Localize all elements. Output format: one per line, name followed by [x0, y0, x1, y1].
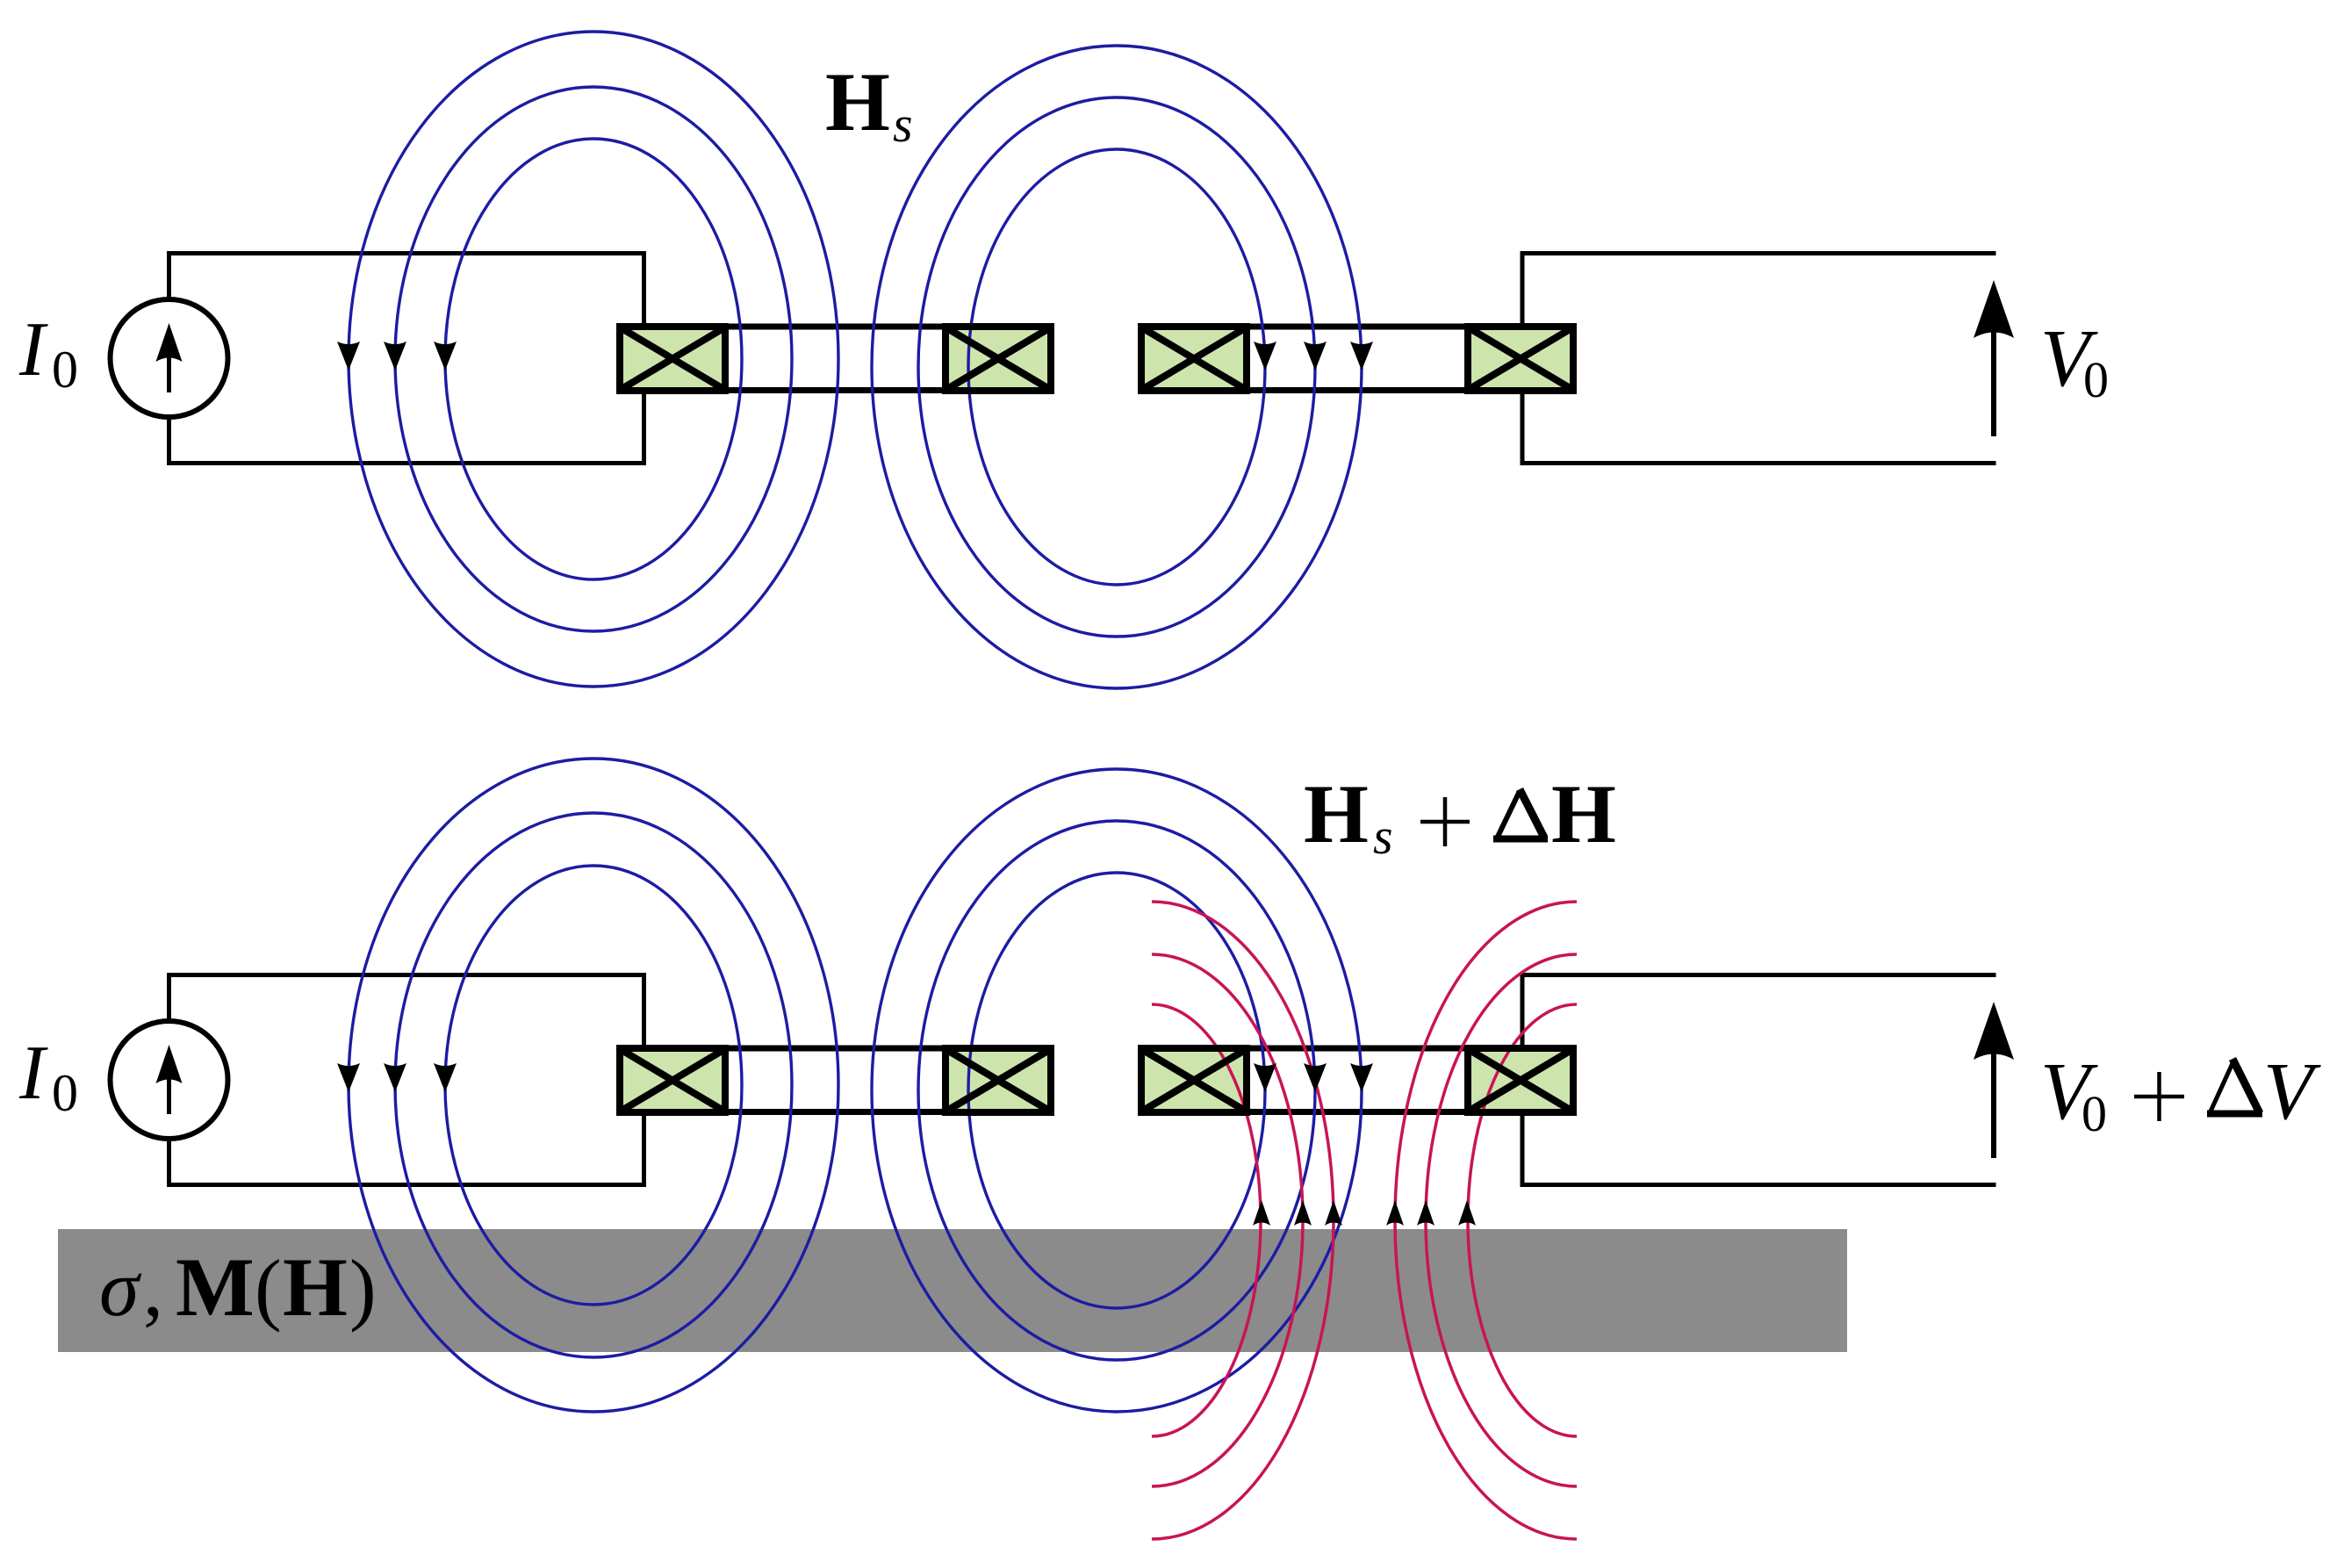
- svg-text:0: 0: [2082, 1085, 2107, 1142]
- svg-text:s: s: [893, 96, 913, 153]
- svg-text:H: H: [1551, 767, 1616, 860]
- svg-text:0: 0: [52, 341, 78, 399]
- svg-text:): ): [349, 1243, 377, 1333]
- svg-text:H: H: [283, 1241, 348, 1334]
- svg-text:(: (: [255, 1243, 282, 1333]
- svg-text:H: H: [1304, 767, 1369, 860]
- svg-text:0: 0: [2083, 351, 2109, 408]
- svg-text:s: s: [1373, 808, 1393, 865]
- svg-text:,: ,: [143, 1243, 163, 1333]
- svg-text:I: I: [18, 1031, 48, 1116]
- svg-text:V: V: [2263, 1047, 2321, 1137]
- svg-text:σ: σ: [99, 1243, 142, 1333]
- svg-text:I: I: [18, 307, 48, 392]
- svg-text:M: M: [176, 1241, 255, 1334]
- svg-text:H: H: [825, 55, 890, 148]
- svg-text:0: 0: [52, 1064, 78, 1122]
